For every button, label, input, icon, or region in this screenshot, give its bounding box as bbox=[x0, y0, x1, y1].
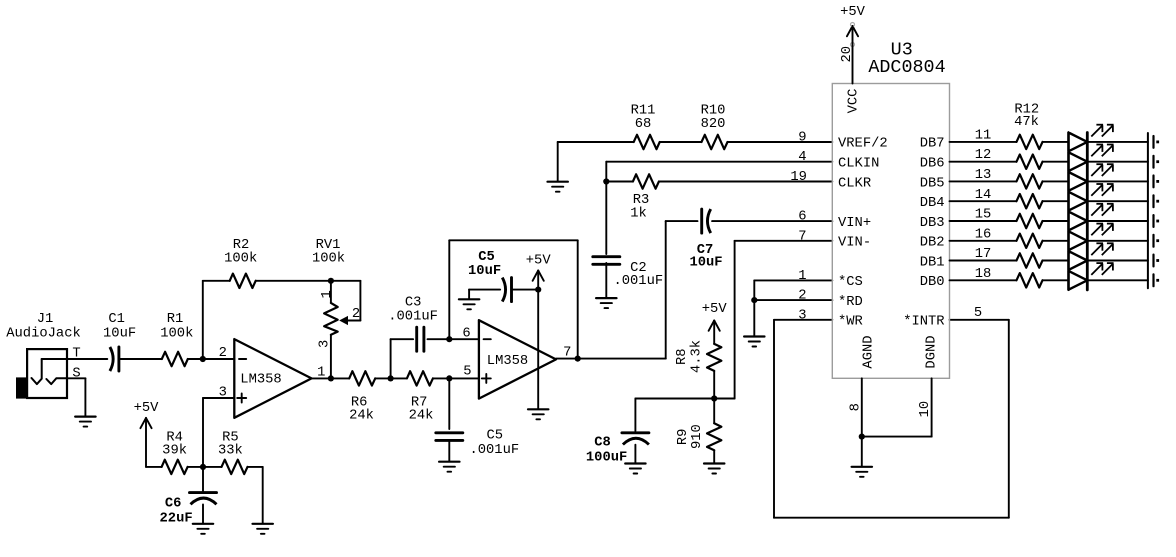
wire DB3 to R12 bbox=[950, 220, 1017, 222]
svg-text:DGND: DGND bbox=[924, 335, 939, 368]
wire LED D2 to bus bbox=[1087, 161, 1148, 163]
resistor R12 element 8 bbox=[1017, 273, 1043, 287]
resistor R3 bbox=[633, 174, 659, 188]
label R6 bbox=[351, 396, 368, 411]
svg-text:100k: 100k bbox=[312, 250, 345, 266]
label C2 bbox=[630, 261, 647, 276]
U2 pin 5 number bbox=[463, 364, 471, 379]
RV1 pin 3 number bbox=[317, 340, 332, 348]
label C5a bbox=[478, 250, 495, 265]
wire U2 feedback loop bbox=[449, 240, 577, 358]
svg-text:10uF: 10uF bbox=[689, 255, 722, 270]
svg-text:CLKR: CLKR bbox=[838, 176, 871, 191]
connector tick row 1 bbox=[1152, 136, 1154, 148]
connector dot row 8 bbox=[1156, 279, 1159, 282]
connector dot row 6 bbox=[1156, 239, 1159, 242]
svg-text:.001uF: .001uF bbox=[613, 274, 663, 289]
op-amp U2 LM358 triangle bbox=[479, 320, 556, 398]
svg-text:DB5: DB5 bbox=[920, 176, 945, 191]
svg-text:DB7: DB7 bbox=[920, 137, 945, 152]
resistor R2 bbox=[230, 274, 256, 288]
wire C8 to ground bbox=[634, 445, 636, 463]
pin 19 number bbox=[790, 170, 807, 185]
capacitor C3 bbox=[417, 327, 424, 351]
wire LED D4 to bus bbox=[1087, 200, 1148, 202]
svg-text:20: 20 bbox=[840, 46, 855, 63]
pin 7 number bbox=[798, 229, 806, 244]
resistor R12 element 5 bbox=[1017, 214, 1043, 228]
pin 16 number bbox=[975, 227, 992, 242]
pin label VREF/2 bbox=[838, 136, 888, 152]
wire R12 to LED D1 bbox=[1043, 141, 1069, 143]
RV1 wiper arrow bbox=[333, 281, 360, 325]
svg-text:DB4: DB4 bbox=[920, 196, 945, 211]
label C3 bbox=[405, 296, 422, 311]
connector dot row 3 bbox=[1156, 180, 1159, 183]
wire R12 to LED D6 bbox=[1043, 240, 1069, 242]
pin 6 number bbox=[798, 210, 806, 225]
svg-text:68: 68 bbox=[635, 117, 652, 132]
connector tick row 4 bbox=[1152, 195, 1154, 207]
wire LED D5 to bus bbox=[1087, 220, 1148, 222]
label 24k R7 bbox=[409, 407, 434, 423]
wire R3 left bbox=[606, 181, 633, 183]
wire R12 to LED D5 bbox=[1043, 220, 1069, 222]
pin 8 number bbox=[848, 403, 863, 411]
label C7 bbox=[697, 243, 714, 258]
label 10uF C5a bbox=[468, 264, 501, 279]
label R9 bbox=[676, 429, 691, 446]
capacitor C5 10uF bbox=[502, 278, 511, 302]
svg-text:2: 2 bbox=[798, 289, 806, 304]
wire DB4 to R12 bbox=[950, 200, 1017, 202]
wire R4 to bias node bbox=[188, 466, 203, 468]
LED D6 bbox=[1069, 231, 1088, 250]
pin label VIN+ bbox=[838, 216, 871, 231]
wire C1 to R1 bbox=[120, 358, 162, 360]
LED D4 bbox=[1069, 192, 1088, 211]
node D junction bbox=[446, 336, 452, 342]
svg-text:LM358: LM358 bbox=[487, 354, 528, 369]
pin label *RD bbox=[838, 294, 863, 310]
ground C2 bbox=[596, 298, 616, 308]
svg-text:5: 5 bbox=[974, 306, 982, 321]
wire *RD node to ground bbox=[753, 300, 755, 336]
wire U1 out to node B bbox=[312, 377, 350, 379]
label 10uF C7 bbox=[689, 255, 722, 270]
svg-text:11: 11 bbox=[975, 129, 992, 144]
LED D8 light arrows bbox=[1091, 263, 1113, 275]
pin label DB2 bbox=[920, 236, 945, 251]
label 24k R6 bbox=[349, 407, 374, 423]
resistor R12 element 3 bbox=[1017, 174, 1043, 188]
label ADC0804 bbox=[868, 57, 945, 78]
svg-text:820: 820 bbox=[701, 117, 726, 132]
ground C5b bbox=[439, 462, 459, 472]
connector dot row 4 bbox=[1156, 200, 1159, 203]
wire C6 to ground bbox=[202, 505, 204, 524]
svg-text:R1: R1 bbox=[167, 312, 184, 327]
label S pin bbox=[72, 367, 80, 382]
label 100k R2 bbox=[224, 250, 257, 266]
label .001uF C5b bbox=[469, 443, 519, 458]
LED D1 bbox=[1069, 133, 1088, 152]
wire R11 to R10 bbox=[660, 141, 702, 143]
wire DB5 to R12 bbox=[950, 180, 1017, 182]
wire C7 to VIN+ pin bbox=[712, 220, 832, 222]
label R12 bbox=[1014, 103, 1039, 118]
svg-text:C5: C5 bbox=[487, 429, 504, 444]
wire +5V to R4 bbox=[146, 418, 162, 467]
node AGND junction bbox=[859, 434, 865, 440]
resistor R10 bbox=[702, 135, 728, 149]
label C5b bbox=[487, 429, 504, 444]
label R1 bbox=[167, 312, 184, 327]
svg-text:*WR: *WR bbox=[838, 314, 863, 330]
connector tick row 5 bbox=[1152, 215, 1154, 227]
label C8 bbox=[594, 436, 611, 451]
pin label DGND bbox=[924, 335, 939, 368]
pin label AGND bbox=[861, 335, 876, 368]
svg-text:+5V: +5V bbox=[840, 5, 866, 20]
ground C6 bbox=[193, 524, 213, 534]
pin 14 number bbox=[975, 188, 992, 203]
svg-text:8: 8 bbox=[848, 403, 863, 411]
wire C5b to ground bbox=[448, 440, 450, 461]
svg-text:.001uF: .001uF bbox=[388, 310, 438, 325]
capacitor C1 bbox=[110, 347, 119, 371]
node F junction bbox=[711, 395, 717, 401]
wire U2 power rail bbox=[537, 271, 539, 409]
svg-text:C5: C5 bbox=[478, 250, 495, 265]
pin 4 number bbox=[798, 150, 806, 165]
power +5V U2 bbox=[526, 254, 552, 281]
resistor R7 bbox=[407, 371, 433, 385]
svg-text:39k: 39k bbox=[162, 443, 187, 459]
pin 10 number bbox=[918, 401, 933, 418]
node *RD junction bbox=[751, 297, 757, 303]
pin 3 number bbox=[798, 308, 806, 323]
connector tick row 2 bbox=[1152, 156, 1154, 168]
svg-text:*CS: *CS bbox=[838, 274, 863, 290]
svg-text:+5V: +5V bbox=[526, 254, 552, 269]
node RV1 top junction bbox=[328, 278, 334, 284]
label R10 bbox=[701, 103, 726, 118]
op-amp U1 LM358 triangle bbox=[234, 339, 311, 418]
node U2 out junction bbox=[575, 356, 581, 362]
LED D2 bbox=[1069, 152, 1088, 171]
svg-text:10: 10 bbox=[918, 401, 933, 418]
wire R3 to CLKR pin bbox=[659, 181, 832, 183]
U2 minus sign bbox=[484, 338, 491, 340]
LED D2 light arrows bbox=[1091, 145, 1113, 157]
label .001uF C3 bbox=[388, 310, 438, 325]
wire bias node to C6 bbox=[202, 467, 204, 491]
capacitor C8 bbox=[622, 433, 649, 445]
capacitor C7 bbox=[702, 209, 711, 233]
wire LED D6 to bus bbox=[1087, 240, 1148, 242]
ground C5a bbox=[459, 299, 479, 309]
resistor R11 bbox=[634, 135, 660, 149]
svg-text:CLKIN: CLKIN bbox=[838, 157, 879, 172]
pin 17 number bbox=[975, 247, 992, 262]
connector dot row 5 bbox=[1156, 220, 1159, 223]
pin 1 number bbox=[798, 269, 806, 284]
svg-text:VCC: VCC bbox=[846, 89, 861, 114]
svg-text:10uF: 10uF bbox=[468, 264, 501, 279]
svg-text:VIN+: VIN+ bbox=[838, 216, 871, 231]
svg-text:4.3k: 4.3k bbox=[689, 340, 705, 373]
svg-text:6: 6 bbox=[798, 210, 806, 225]
node +5V U2 junction bbox=[535, 287, 541, 293]
svg-text:100k: 100k bbox=[160, 325, 193, 341]
svg-text:10uF: 10uF bbox=[103, 326, 136, 341]
svg-text:C6: C6 bbox=[165, 496, 182, 511]
power +5V R8 bbox=[702, 302, 728, 331]
resistor R4 bbox=[162, 460, 188, 474]
ground R9 bbox=[704, 464, 724, 474]
svg-text:R9: R9 bbox=[676, 429, 691, 446]
label 68 bbox=[635, 117, 652, 132]
wire C3 to node D bbox=[428, 338, 479, 340]
power +5V VCC bbox=[840, 5, 866, 36]
svg-text:14: 14 bbox=[975, 188, 992, 203]
U1 minus sign bbox=[239, 358, 246, 360]
potentiometer RV1 body bbox=[324, 281, 338, 379]
svg-text:1: 1 bbox=[798, 269, 806, 284]
VCC pin circle top bbox=[851, 23, 855, 27]
ground C8 bbox=[625, 464, 645, 474]
wire DB1 to R12 bbox=[950, 260, 1017, 262]
ground U2 power bbox=[528, 409, 548, 419]
wire R1 to node A bbox=[188, 358, 235, 360]
LED D7 bbox=[1069, 251, 1088, 270]
wire DB2 to R12 bbox=[950, 240, 1017, 242]
label R11 bbox=[631, 103, 656, 118]
wire VIN- to divider bbox=[714, 241, 832, 399]
resistor R8 bbox=[707, 344, 721, 371]
RV1 pin 2 number bbox=[352, 307, 360, 322]
wire CLKIN bbox=[606, 162, 832, 254]
svg-text:C3: C3 bbox=[405, 296, 422, 311]
LED D3 light arrows bbox=[1091, 164, 1113, 176]
resistor R12 element 1 bbox=[1017, 135, 1043, 149]
resistor R12 element 6 bbox=[1017, 234, 1043, 248]
label T pin bbox=[72, 347, 80, 362]
RV1 pin 1 number bbox=[320, 290, 335, 298]
wire DGND bbox=[862, 378, 932, 436]
label U3 bbox=[891, 39, 913, 60]
wire R2 to RV1 bbox=[256, 280, 331, 282]
wire DB0 to R12 bbox=[950, 279, 1017, 281]
resistor R5 bbox=[222, 460, 248, 474]
wire *CS bbox=[754, 280, 832, 300]
svg-text:22uF: 22uF bbox=[160, 512, 193, 527]
wire *WR to *INTR loop bbox=[774, 320, 1009, 518]
pin 5 number bbox=[974, 306, 982, 321]
label LM358 U1 bbox=[240, 373, 281, 388]
svg-text:19: 19 bbox=[790, 170, 807, 185]
label C6 bbox=[165, 496, 182, 511]
node bias junction bbox=[200, 464, 206, 470]
pin 18 number bbox=[975, 267, 992, 282]
label .001uF C2 bbox=[613, 274, 663, 289]
wire node A up to R2 bbox=[203, 281, 230, 359]
capacitor C6 bbox=[190, 493, 217, 505]
svg-text:AudioJack: AudioJack bbox=[6, 325, 81, 341]
wire VCC bbox=[852, 26, 854, 84]
wire R10 to VREF pin bbox=[728, 141, 833, 143]
svg-text:*RD: *RD bbox=[838, 294, 863, 310]
svg-text:910: 910 bbox=[690, 424, 705, 449]
wire R9 to ground bbox=[713, 450, 715, 463]
wire LED D8 to bus bbox=[1087, 279, 1148, 281]
label 100k R1 bbox=[160, 325, 193, 341]
LED D5 light arrows bbox=[1091, 204, 1113, 216]
svg-text:C1: C1 bbox=[108, 312, 125, 327]
wire R5 to ground bbox=[248, 467, 263, 524]
LED D4 light arrows bbox=[1091, 184, 1113, 196]
pin 11 number bbox=[975, 129, 992, 144]
label R5 bbox=[222, 430, 239, 445]
resistor R9 bbox=[707, 423, 721, 450]
capacitor C2 bbox=[593, 257, 620, 265]
connector dot row 7 bbox=[1156, 259, 1159, 262]
svg-text:24k: 24k bbox=[409, 407, 434, 423]
U1 pin 2 number bbox=[219, 346, 227, 361]
pin 2 number bbox=[798, 289, 806, 304]
wire node F to C8 bbox=[635, 399, 714, 432]
pin label DB3 bbox=[920, 216, 945, 231]
resistor R1 bbox=[162, 352, 188, 366]
label 4.3k bbox=[689, 340, 705, 373]
svg-text:9: 9 bbox=[798, 130, 806, 145]
pin 13 number bbox=[975, 168, 992, 183]
pin label DB6 bbox=[920, 157, 945, 172]
svg-text:47k: 47k bbox=[1014, 114, 1039, 130]
wire U2 output bbox=[556, 358, 666, 360]
LED D3 bbox=[1069, 172, 1088, 191]
wire node E down to C5b bbox=[448, 378, 450, 429]
label 910 bbox=[690, 424, 705, 449]
pin label DB7 bbox=[920, 137, 945, 152]
LED D5 bbox=[1069, 212, 1088, 231]
wire VREF left to ground bbox=[558, 142, 634, 181]
LED D7 light arrows bbox=[1091, 243, 1113, 255]
wire LED D7 to bus bbox=[1087, 260, 1148, 262]
connector tick row 7 bbox=[1152, 255, 1154, 267]
wire AGND to ground bbox=[861, 437, 863, 467]
svg-text:R8: R8 bbox=[675, 348, 690, 365]
LED D8 bbox=[1069, 271, 1088, 290]
svg-text:100uF: 100uF bbox=[586, 451, 627, 466]
label 100k RV1 bbox=[312, 250, 345, 266]
connector dot row 1 bbox=[1156, 141, 1159, 144]
wire C2 to ground bbox=[605, 263, 607, 298]
svg-text:16: 16 bbox=[975, 227, 992, 242]
wire R12 to LED D4 bbox=[1043, 200, 1069, 202]
U1 pin 3 number bbox=[219, 385, 227, 400]
wire DB7 to R12 bbox=[950, 141, 1017, 143]
wire R12 to LED D7 bbox=[1043, 260, 1069, 262]
power +5V bias bbox=[134, 401, 160, 428]
LED D6 light arrows bbox=[1091, 224, 1113, 236]
ground VREF bbox=[548, 182, 568, 192]
wire U2 out to C7 riser bbox=[666, 221, 698, 359]
pin label CLKR bbox=[838, 176, 871, 191]
svg-text:+5V: +5V bbox=[702, 302, 728, 317]
wire R8 to node F bbox=[713, 371, 715, 399]
svg-text:ADC0804: ADC0804 bbox=[868, 57, 945, 78]
pin 15 number bbox=[975, 208, 992, 223]
connector J1 AudioJack bbox=[16, 349, 67, 399]
node C junction bbox=[388, 375, 394, 381]
svg-text:18: 18 bbox=[975, 267, 992, 282]
wire node C up to C3 bbox=[391, 339, 414, 378]
VCC pin circle mid bbox=[851, 43, 855, 47]
label 39k bbox=[162, 443, 187, 459]
wire ground to C5a bbox=[469, 290, 500, 299]
pin label *WR bbox=[838, 314, 863, 330]
resistor R12 element 2 bbox=[1017, 155, 1043, 169]
svg-text:7: 7 bbox=[798, 229, 806, 244]
connector tick row 6 bbox=[1152, 235, 1154, 247]
wire R12 to LED D8 bbox=[1043, 279, 1069, 281]
resistor R6 bbox=[349, 371, 375, 385]
capacitor C5 .001uF bbox=[436, 433, 463, 441]
pin label CLKIN bbox=[838, 157, 879, 172]
pin label *CS bbox=[838, 274, 863, 290]
pin label VIN- bbox=[838, 236, 871, 251]
svg-text:*INTR: *INTR bbox=[903, 314, 944, 330]
node B junction bbox=[328, 375, 334, 381]
label C1 bbox=[108, 312, 125, 327]
pin label VCC bbox=[846, 89, 861, 114]
svg-text:J1: J1 bbox=[37, 312, 54, 327]
U2 plus sign bbox=[482, 374, 491, 383]
ground AGND bbox=[852, 467, 872, 477]
ground R5 bbox=[253, 524, 273, 534]
pin label DB5 bbox=[920, 176, 945, 191]
svg-text:5: 5 bbox=[463, 364, 471, 379]
connector tick row 8 bbox=[1152, 274, 1154, 286]
wire node F to R9 bbox=[713, 399, 715, 424]
label R2 bbox=[233, 238, 250, 253]
wire LED D3 to bus bbox=[1087, 180, 1148, 182]
svg-text:DB1: DB1 bbox=[920, 255, 945, 270]
IC U3 ADC0804 body bbox=[832, 84, 949, 379]
svg-text:24k: 24k bbox=[349, 407, 374, 423]
ground *RD bbox=[744, 337, 764, 347]
wire bias node to U1 pin3 bbox=[203, 398, 234, 467]
svg-text:33k: 33k bbox=[218, 443, 243, 459]
LED D1 light arrows bbox=[1091, 125, 1113, 137]
label R7 bbox=[411, 396, 428, 411]
wire R12 to LED D2 bbox=[1043, 161, 1069, 163]
connector dot row 2 bbox=[1156, 160, 1159, 163]
label AudioJack bbox=[6, 325, 81, 341]
label R3 bbox=[633, 193, 650, 208]
label 47k bbox=[1014, 114, 1039, 130]
pin 20 number bbox=[840, 46, 855, 63]
label 100uF bbox=[586, 451, 627, 466]
label R8 bbox=[675, 348, 690, 365]
svg-text:VIN-: VIN- bbox=[838, 236, 871, 251]
svg-text:3: 3 bbox=[798, 308, 806, 323]
label LM358 U2 bbox=[487, 354, 528, 369]
wire LED D1 to bus bbox=[1087, 141, 1148, 143]
wire *RD bbox=[754, 299, 832, 301]
